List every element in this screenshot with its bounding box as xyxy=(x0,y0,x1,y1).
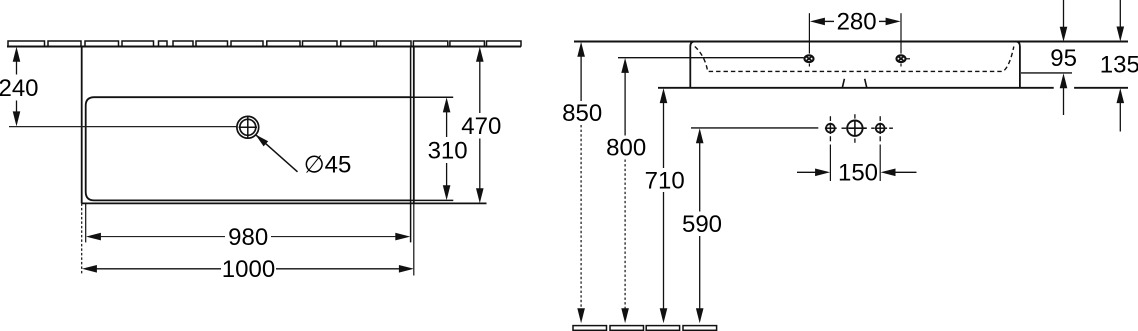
leader arrowhead xyxy=(255,135,268,147)
svg-text:850: 850 xyxy=(562,100,602,127)
dim 1000 line xyxy=(97,268,222,270)
dim 150 left arrow xyxy=(815,169,830,177)
dim 710 shaft xyxy=(663,103,665,169)
basin inner rim outline xyxy=(86,97,411,200)
dim 150 right extension xyxy=(879,145,881,182)
svg-text:710: 710 xyxy=(645,168,685,195)
dim 240 top arrow xyxy=(13,47,21,62)
dim 850 bottom arrow xyxy=(577,308,585,323)
dim 590 shaft xyxy=(699,143,701,212)
svg-text:150: 150 xyxy=(838,159,878,186)
dim 95 top shaft xyxy=(1063,0,1065,28)
dim 240 bottom arrow xyxy=(13,111,21,126)
basin profile right edge xyxy=(1015,42,1020,88)
dim 310 top arrow xyxy=(443,97,451,112)
dashed centerline through tap hole xyxy=(9,126,237,128)
dim 150 left line xyxy=(797,171,816,173)
center drain hole circle xyxy=(847,121,862,136)
center drain hole vertical centerline xyxy=(854,114,856,118)
basin inner right edge line xyxy=(410,47,412,243)
dim 280 left arrow xyxy=(810,18,825,26)
dim 280 left extension xyxy=(808,13,810,53)
dim 95 bottom shaft xyxy=(1063,88,1065,116)
dim 800 shaft xyxy=(624,73,626,136)
dim 135 bottom arrow xyxy=(1117,88,1125,103)
basin outer right edge xyxy=(413,47,415,204)
fixing hole left vertical centerline xyxy=(829,116,831,121)
top surface line (850 level) xyxy=(574,41,1128,43)
dim 590 top arrow xyxy=(696,128,704,143)
dim 800 bottom arrow xyxy=(621,308,629,323)
basin profile left edge xyxy=(690,42,695,88)
faucet hole left xyxy=(805,55,814,62)
dim 135 top shaft xyxy=(1119,0,1121,27)
dim 590 horizontal line (fixing hole level) xyxy=(691,127,818,129)
dim 590 bottom arrow xyxy=(696,308,704,323)
dim 980 left arrow xyxy=(86,233,101,241)
dim 980 right arrow xyxy=(395,233,410,241)
overflow tick left xyxy=(842,79,844,88)
overflow tick right xyxy=(865,79,867,88)
faucet hole right xyxy=(897,55,906,62)
dim 470 bottom arrow xyxy=(476,188,484,203)
svg-text:280: 280 xyxy=(837,8,877,35)
floor tile row xyxy=(573,326,717,331)
dim 135 bottom shaft xyxy=(1119,103,1121,132)
dim 150 right arrow xyxy=(881,169,896,177)
dim 850 shaft xyxy=(580,57,582,102)
dim 150 right line xyxy=(895,171,917,173)
dim 850 top arrow xyxy=(577,42,585,57)
svg-text:980: 980 xyxy=(228,224,268,251)
leader line for diameter label xyxy=(256,135,297,172)
mounting bottom line (710 level) xyxy=(658,87,1054,89)
dim 1000 left arrow xyxy=(82,265,97,273)
dim 135 top arrow xyxy=(1117,27,1125,42)
dim 800 horizontal line (tap hole level) xyxy=(618,57,804,59)
dim 710 bottom arrow xyxy=(660,308,668,323)
dim 1000 right arrow xyxy=(399,265,414,273)
dim 800 top arrow xyxy=(621,58,629,73)
tap hole outer circle xyxy=(237,116,259,138)
svg-text:∅45: ∅45 xyxy=(304,152,352,179)
dim 95 top arrow xyxy=(1060,27,1068,42)
dim 980 line xyxy=(101,236,226,238)
dim 150 left extension xyxy=(829,145,831,182)
basin outer bottom edge xyxy=(82,202,487,204)
hidden interior rim dashed line xyxy=(695,47,1014,72)
dim 310 shaft xyxy=(446,112,448,137)
fixing holes dash-dot centerline xyxy=(825,127,837,129)
dim 95 bottom arrow xyxy=(1060,73,1068,88)
faucet hole right side tick xyxy=(907,58,911,60)
extension line below outer-left edge xyxy=(81,203,83,273)
svg-text:470: 470 xyxy=(461,113,501,140)
extension line below outer-right edge xyxy=(413,203,415,275)
fixing hole right vertical centerline xyxy=(879,116,881,121)
svg-text:1000: 1000 xyxy=(222,256,275,283)
tap hole inner circle xyxy=(240,119,256,135)
dim 470 top arrow xyxy=(476,47,484,62)
wall line (left view) xyxy=(7,46,521,48)
interior bottom extension line (95 level) xyxy=(1021,72,1072,74)
dim 280 right arrow xyxy=(886,18,901,26)
wall tile hatch row xyxy=(8,41,521,47)
dim 240 shaft xyxy=(16,61,18,75)
inner rim bottom extension line xyxy=(411,199,454,201)
basin outer left edge xyxy=(81,47,83,204)
svg-text:310: 310 xyxy=(428,138,468,165)
dim 280 right extension xyxy=(900,13,902,53)
svg-text:800: 800 xyxy=(606,135,646,162)
tap hole crosshair xyxy=(239,126,257,128)
fixing hole left circle xyxy=(826,124,835,133)
extension line below inner-left edge xyxy=(85,204,87,242)
svg-text:590: 590 xyxy=(682,211,722,238)
dim 710 top arrow xyxy=(660,88,668,103)
dim 310 bottom arrow xyxy=(443,185,451,200)
svg-text:135: 135 xyxy=(1100,51,1138,78)
svg-text:240: 240 xyxy=(0,75,39,102)
fixing hole right circle xyxy=(876,124,885,133)
dim 280 line xyxy=(825,20,835,22)
svg-text:95: 95 xyxy=(1050,45,1077,72)
dim 470 shaft xyxy=(479,62,481,114)
inner rim top extension line xyxy=(411,96,454,98)
